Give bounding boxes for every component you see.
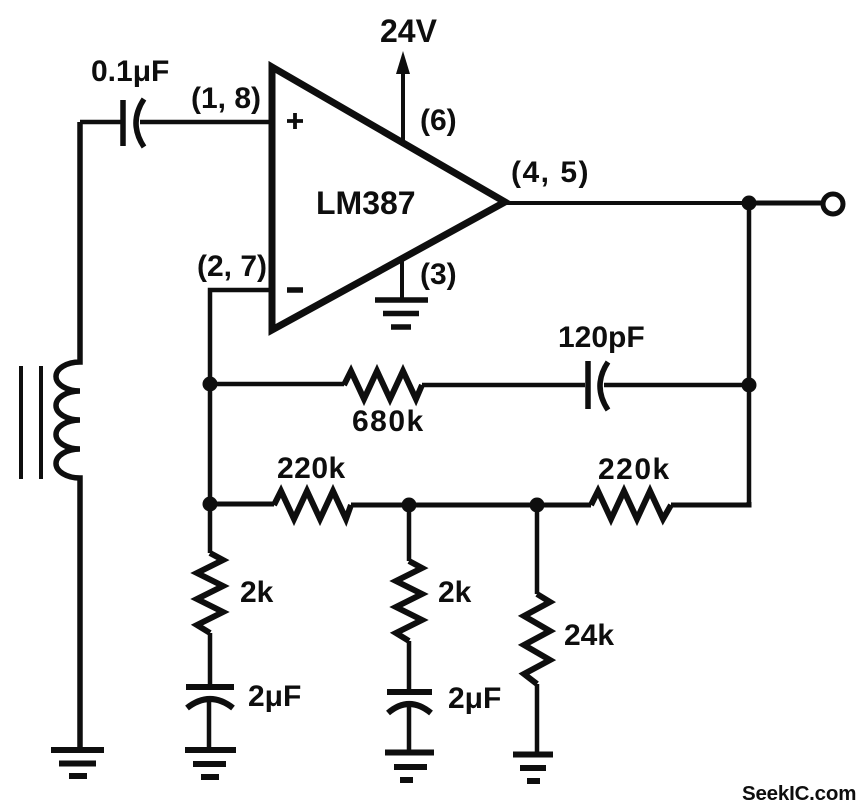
wire node C to node D [409, 503, 537, 508]
svg-text:SeekIC.com: SeekIC.com [742, 782, 856, 805]
svg-text:(1, 8): (1, 8) [191, 82, 261, 115]
svg-text:(4, 5): (4, 5) [511, 156, 590, 189]
svg-text:0.1μF: 0.1μF [91, 55, 169, 88]
wire R1 to capacitor C2 [422, 383, 585, 388]
wire node B to resistor R2 [210, 502, 274, 507]
wire C3 to ground [207, 700, 212, 748]
wire inverting input to node A [210, 290, 272, 384]
wire node B to resistor R4 [208, 504, 213, 553]
ground below transformer [51, 750, 104, 776]
wire R2 to node C [351, 503, 409, 508]
svg-text:LM387: LM387 [316, 185, 416, 221]
wire R4 to capacitor C3 [208, 633, 213, 684]
svg-text:(6): (6) [420, 104, 457, 137]
wire C2 to output node column [604, 383, 749, 388]
op-amp U1 LM387 triangle [272, 67, 505, 330]
wire node D to resistor R3 [537, 503, 591, 508]
svg-text:220k: 220k [598, 453, 671, 486]
resistor R4 2k [197, 553, 223, 633]
node output junction [742, 196, 757, 211]
svg-text:2k: 2k [438, 576, 472, 609]
op-amp + input mark [287, 113, 303, 129]
node feedback right junction [742, 378, 757, 393]
ground below C3 [185, 750, 236, 777]
wire pin 3 ground lead [400, 258, 404, 300]
svg-text:2μF: 2μF [448, 682, 501, 715]
wire node C to resistor R5 [407, 505, 412, 561]
ground below C4 [385, 753, 434, 781]
resistor R1 680k [344, 371, 422, 399]
node B lower left junction [203, 497, 218, 512]
svg-text:(3): (3) [420, 258, 457, 291]
wire output column vertical [747, 203, 752, 504]
wire node to output terminal [749, 201, 823, 206]
transformer T1 winding [56, 122, 80, 748]
ground pin 3 [375, 300, 428, 327]
node D junction [530, 498, 545, 513]
ground below R6 [513, 755, 553, 782]
wire capacitor to op-amp + input [140, 120, 272, 125]
resistor R2 220k [274, 491, 351, 519]
transformer T1 core bars [21, 366, 41, 479]
resistor R5 2k [396, 561, 422, 641]
wire R5 to capacitor C4 [407, 641, 412, 689]
resistor R6 24k [524, 594, 550, 684]
output terminal open circle [823, 194, 843, 214]
svg-text:680k: 680k [352, 405, 425, 438]
svg-text:2μF: 2μF [248, 680, 301, 713]
svg-text:24k: 24k [564, 619, 614, 652]
svg-text:120pF: 120pF [558, 321, 645, 354]
wire pin 6 supply lead [401, 70, 405, 146]
arrowhead 24V supply arrow [396, 51, 410, 74]
wire input left segment [80, 120, 121, 125]
wire node D to resistor R6 [535, 505, 540, 594]
svg-text:(2, 7): (2, 7) [197, 250, 267, 283]
op-amp - input mark [287, 287, 303, 293]
svg-text:220k: 220k [277, 452, 346, 485]
svg-text:2k: 2k [240, 576, 274, 609]
wire C4 to ground [407, 705, 412, 750]
wire R6 to ground [535, 684, 540, 752]
node A feedback junction [203, 377, 218, 392]
wire R3 to output column corner [671, 502, 749, 505]
wire node A down to node B [208, 384, 213, 504]
wire node A to resistor R1 [210, 382, 344, 387]
capacitor C2 120pF [588, 361, 608, 410]
capacitor C1 0.1uF [123, 99, 144, 147]
wire output from op-amp [505, 201, 749, 205]
resistor R3 220k [591, 491, 671, 519]
capacitor C3 2uF [186, 687, 234, 708]
capacitor C4 2uF [387, 692, 432, 713]
svg-text:24V: 24V [380, 13, 438, 49]
node C junction [402, 498, 417, 513]
